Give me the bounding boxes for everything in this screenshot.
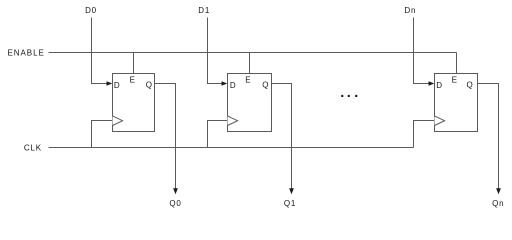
wire Q0 output net	[155, 84, 176, 189]
flip-flop U3 body	[435, 74, 478, 132]
wire Qn output net	[478, 84, 499, 189]
wire E input of U3 (ENABLE bend down)	[456, 53, 458, 74]
svg-text:Qn: Qn	[492, 199, 504, 208]
svg-text:ENABLE: ENABLE	[8, 48, 45, 57]
wire Dn input net	[414, 18, 429, 84]
flip-flop U1 clock triangle	[113, 116, 123, 126]
arrowhead of Q0 output	[173, 188, 178, 194]
wire CLK riser to U2	[208, 121, 228, 148]
arrowhead of Qn output	[496, 188, 501, 194]
wire E input of U2	[249, 53, 251, 74]
svg-text:Q1: Q1	[284, 199, 296, 208]
flip-flop U2 body	[228, 74, 272, 132]
arrowhead of Q1 output	[289, 188, 294, 194]
svg-text:E: E	[130, 75, 135, 84]
wire D0 input net	[92, 18, 107, 84]
wire D1 input net	[208, 18, 222, 84]
flip-flop U1 body	[113, 74, 155, 132]
svg-text:D0: D0	[85, 6, 97, 15]
wire E input of U1	[133, 53, 135, 74]
flip-flop U2 clock triangle	[228, 116, 238, 126]
svg-text:E: E	[452, 75, 457, 84]
wire ENABLE horizontal bus	[49, 52, 457, 54]
svg-text:Q: Q	[262, 81, 268, 90]
arrowhead into D of U1	[107, 81, 113, 85]
svg-text:D: D	[436, 81, 442, 90]
svg-text:D: D	[230, 81, 236, 90]
svg-text:Q0: Q0	[169, 199, 181, 208]
svg-text:D1: D1	[198, 6, 210, 15]
wire Q1 output net	[272, 84, 292, 189]
wire CLK riser to U3	[414, 121, 435, 148]
arrowhead into D of U3	[429, 81, 435, 85]
svg-text:E: E	[245, 75, 250, 84]
wire CLK riser to U1	[92, 121, 113, 148]
ellipsis dots between U2 and U3	[341, 95, 357, 97]
flip-flop U3 clock triangle	[435, 116, 445, 126]
svg-text:Q: Q	[146, 81, 152, 90]
arrowhead into D of U2	[222, 81, 228, 85]
svg-text:Q: Q	[467, 81, 473, 90]
svg-text:CLK: CLK	[24, 144, 42, 153]
svg-text:D: D	[114, 81, 120, 90]
wire CLK horizontal bus	[49, 147, 414, 149]
svg-text:Dn: Dn	[404, 6, 416, 15]
